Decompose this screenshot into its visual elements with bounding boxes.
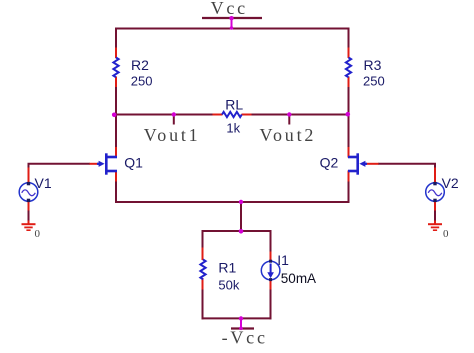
svg-text:Q2: Q2: [320, 155, 339, 171]
svg-text:250: 250: [131, 74, 153, 89]
svg-text:1k: 1k: [226, 120, 240, 135]
svg-text:I1: I1: [277, 252, 289, 268]
svg-text:-Vcc: -Vcc: [222, 328, 268, 348]
svg-text:RL: RL: [225, 96, 243, 112]
svg-text:Vcc: Vcc: [211, 0, 248, 18]
svg-text:V2: V2: [442, 175, 459, 191]
svg-text:0: 0: [443, 228, 449, 240]
svg-text:Vout1: Vout1: [144, 125, 201, 145]
svg-text:R1: R1: [218, 260, 236, 276]
svg-text:0: 0: [35, 228, 41, 240]
svg-text:R2: R2: [131, 57, 149, 73]
svg-text:50k: 50k: [218, 278, 239, 293]
svg-text:Vout2: Vout2: [260, 125, 317, 145]
svg-text:250: 250: [363, 74, 385, 89]
svg-text:50mA: 50mA: [281, 271, 316, 286]
svg-text:V1: V1: [35, 175, 52, 191]
svg-text:Q1: Q1: [124, 155, 143, 171]
svg-text:R3: R3: [364, 57, 382, 73]
